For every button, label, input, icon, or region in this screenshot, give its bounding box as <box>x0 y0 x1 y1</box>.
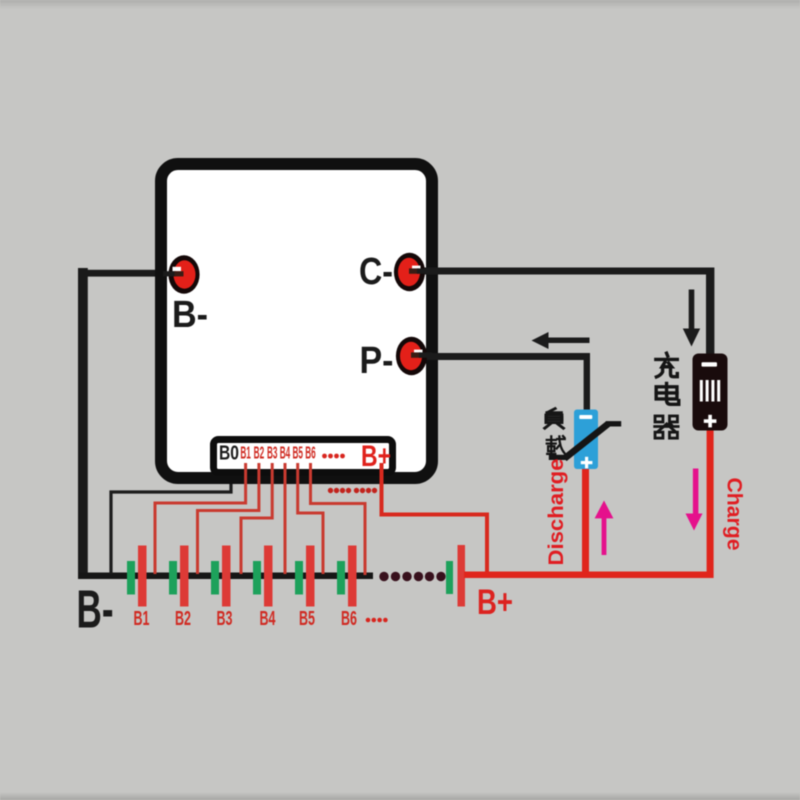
wire red bus B+ <box>464 572 714 579</box>
wire B- thick vertical (left) <box>78 268 88 579</box>
svg-text:P-: P- <box>360 340 394 382</box>
svg-text:B3: B3 <box>217 608 233 630</box>
svg-text:B1: B1 <box>240 443 251 463</box>
switch on load <box>549 424 621 459</box>
magenta discharge arrow (up) <box>595 501 614 556</box>
svg-text:B+: B+ <box>361 440 391 473</box>
magenta charge arrow (down) <box>686 469 703 531</box>
wire P- horizontal <box>414 353 590 360</box>
battery cell B6 plates <box>337 561 345 595</box>
label charger 电 <box>656 383 679 404</box>
wire B- horizontal from terminal to left edge <box>78 270 184 277</box>
battery cell B2 plates <box>169 561 177 595</box>
wire P- vertical to load <box>584 353 590 411</box>
svg-text:B2: B2 <box>254 443 265 463</box>
load symbol (blue) <box>574 410 598 470</box>
wire sense B2 <box>198 463 259 574</box>
svg-text:B5: B5 <box>292 443 303 463</box>
battery cell B5 plates <box>295 561 303 595</box>
battery cell B3 plates <box>211 561 219 595</box>
wire load vertical (load to bus) <box>582 469 589 578</box>
connector strip J1 <box>214 440 393 473</box>
svg-text:Charge: Charge <box>723 478 747 551</box>
wire sense B+ <box>382 463 488 573</box>
strip ellipsis dots <box>322 454 345 459</box>
wire sense B6 <box>311 463 366 575</box>
dots below box border <box>328 488 377 493</box>
svg-text:Discharge: Discharge <box>545 459 568 566</box>
svg-text:B6: B6 <box>341 608 357 630</box>
svg-text:C-: C- <box>359 251 393 293</box>
wire sense B5 <box>298 463 323 574</box>
battery cell B1 plates <box>127 561 135 595</box>
wire B0 sense (black thin) <box>111 462 231 574</box>
cell label ellipsis dots <box>366 618 388 623</box>
BMS box U1 <box>161 164 432 478</box>
charger symbol <box>693 354 728 431</box>
svg-text:B6: B6 <box>305 443 316 463</box>
svg-text:B2: B2 <box>175 608 191 630</box>
svg-text:B5: B5 <box>299 608 315 630</box>
svg-text:B4: B4 <box>280 443 291 463</box>
terminal B- <box>163 255 200 293</box>
label charger 充 <box>656 353 677 377</box>
label charger 器 <box>655 416 678 438</box>
svg-text:B+: B+ <box>477 583 513 622</box>
wire sense B4 <box>284 463 287 574</box>
svg-text:B4: B4 <box>260 608 277 630</box>
discharge direction arrow (black, left) <box>532 332 590 349</box>
svg-text:B0: B0 <box>219 442 239 465</box>
terminal C- <box>394 253 430 291</box>
svg-text:B1: B1 <box>134 608 150 630</box>
charge direction arrow (black, down) <box>683 290 700 347</box>
battery ellipsis big dots <box>379 572 445 581</box>
wire sense B3 <box>241 463 272 574</box>
svg-text:B-: B- <box>172 294 208 336</box>
wire sense B1 <box>155 463 246 574</box>
svg-text:B-: B- <box>77 580 114 640</box>
svg-text:B3: B3 <box>267 443 278 463</box>
label load 负 <box>545 409 564 429</box>
label load 载 <box>547 436 565 455</box>
wire battery negative bus <box>79 573 373 580</box>
battery cell B4 plates <box>253 561 261 595</box>
terminal P- <box>396 337 432 375</box>
wire charge vertical (charger to bus) <box>707 431 714 579</box>
battery last cell plates (B+ end) <box>446 561 453 594</box>
wire C- vertical to charger <box>706 268 714 356</box>
wire C- horizontal <box>414 268 714 275</box>
